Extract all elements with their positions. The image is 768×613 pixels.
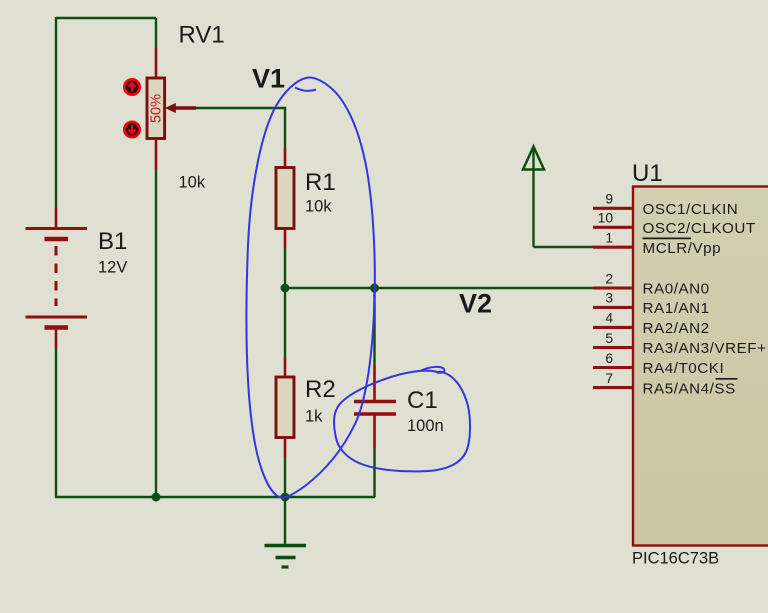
pin 9 stub: [593, 207, 633, 210]
annotation hook at C1 loop top: [421, 367, 445, 373]
svg-text:RA5/AN4/SS: RA5/AN4/SS: [643, 380, 736, 397]
svg-text:1k: 1k: [305, 408, 323, 426]
svg-text:6: 6: [605, 351, 613, 366]
RV1 up button: [124, 79, 139, 94]
svg-text:2: 2: [605, 271, 613, 286]
annotation loop around divider: [246, 78, 374, 498]
battery B1: [26, 207, 88, 348]
wire node to R2: [284, 288, 286, 358]
pin 4 stub: [593, 326, 633, 329]
MCLR overline: [643, 237, 692, 239]
annotation flick at loop top: [295, 88, 316, 91]
junction node at C1 top: [370, 284, 379, 293]
wire C1 bottom to rail: [373, 449, 375, 498]
pin 6 stub: [593, 366, 633, 369]
wire R2 bottom to rail: [284, 458, 286, 498]
svg-text:OSC1/CLKIN: OSC1/CLKIN: [643, 201, 739, 218]
svg-text:1: 1: [605, 231, 613, 246]
svg-text:7: 7: [605, 371, 613, 386]
wire C1 branch vertical: [373, 288, 375, 365]
svg-text:RA3/AN3/VREF+: RA3/AN3/VREF+: [643, 340, 767, 357]
RV1 down button: [124, 122, 139, 137]
svg-text:5: 5: [605, 331, 613, 346]
svg-text:RA1/AN1: RA1/AN1: [643, 300, 710, 317]
ground: [265, 497, 307, 567]
svg-text:V2: V2: [459, 289, 492, 319]
svg-text:V1: V1: [252, 64, 285, 94]
potentiometer RV1: [147, 18, 165, 497]
svg-text:R2: R2: [305, 376, 336, 403]
svg-text:C1: C1: [407, 387, 438, 414]
wire left battery branch lower: [55, 348, 57, 497]
junction node at R divider: [281, 284, 290, 293]
wire R1 bottom to node: [284, 249, 286, 289]
svg-text:OSC2/CLKOUT: OSC2/CLKOUT: [643, 220, 756, 237]
svg-text:3: 3: [605, 291, 613, 306]
SS overline: [716, 378, 738, 380]
svg-text:10k: 10k: [305, 198, 332, 216]
svg-text:9: 9: [605, 192, 613, 207]
svg-text:MCLR/Vpp: MCLR/Vpp: [643, 240, 722, 257]
RV1 wiper arrow: [165, 103, 285, 113]
svg-text:U1: U1: [632, 160, 663, 187]
pin 1 stub: [593, 246, 633, 249]
svg-text:100n: 100n: [407, 417, 444, 435]
capacitor C1: [354, 365, 396, 449]
power arrow (VCC): [523, 147, 594, 248]
svg-text:RA0/AN0: RA0/AN0: [643, 281, 710, 298]
resistor R2: [276, 358, 294, 458]
pin 2 stub: [593, 286, 633, 289]
svg-text:10k: 10k: [179, 174, 206, 192]
wire V1 node vertical: [284, 107, 286, 148]
pin 10 stub: [593, 226, 633, 229]
svg-text:R1: R1: [305, 169, 336, 196]
chip U1 PIC16C73B: [633, 187, 768, 546]
svg-text:RV1: RV1: [179, 22, 225, 49]
pin 7 stub: [593, 386, 633, 389]
svg-text:RA2/AN2: RA2/AN2: [643, 320, 710, 337]
svg-text:PIC16C73B: PIC16C73B: [632, 550, 719, 568]
svg-text:12V: 12V: [98, 259, 127, 277]
wire top (battery to pot): [56, 17, 156, 19]
resistor R1: [276, 148, 294, 249]
wire node horizontal V2 to U1 pin2: [285, 287, 594, 289]
wire bottom rail: [55, 496, 375, 498]
annotation loop around C1: [334, 371, 470, 472]
svg-text:10: 10: [598, 211, 614, 226]
junction node at ground: [281, 493, 290, 502]
wire left battery branch upper: [55, 17, 57, 207]
svg-text:50%: 50%: [149, 94, 165, 123]
svg-text:RA4/T0CKI: RA4/T0CKI: [643, 360, 725, 377]
svg-text:4: 4: [605, 311, 613, 326]
svg-text:B1: B1: [98, 228, 127, 255]
pin 3 stub: [593, 306, 633, 309]
junction node at pot bottom: [152, 493, 161, 502]
pin 5 stub: [593, 346, 633, 349]
